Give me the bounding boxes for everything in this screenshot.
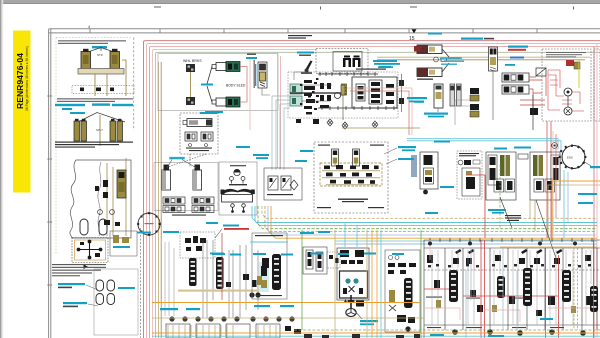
red note label (224, 228, 249, 230)
rc corner labels (317, 145, 384, 209)
metering cylinder pair (450, 84, 461, 106)
steering metering cylinder (434, 84, 443, 108)
port circles top (428, 242, 577, 246)
stick cylinder S2 (110, 49, 120, 73)
box1 title text (58, 40, 126, 44)
box label rows (186, 148, 212, 152)
left ruler (49, 29, 51, 338)
solenoid stack 1 (470, 88, 479, 101)
cartridge center (369, 80, 382, 104)
brake block B2 (186, 97, 195, 105)
small marks row (428, 264, 591, 267)
pills lower 2x2 (96, 280, 115, 305)
dashed column separator lower (140, 228, 142, 338)
khaki corner wire (548, 185, 600, 238)
red wires fan (548, 70, 584, 111)
cylinder pair right (110, 119, 123, 141)
pin left (230, 177, 234, 181)
small fittings (226, 274, 257, 287)
sub box marks (80, 88, 114, 92)
cyan labels right low (578, 193, 597, 195)
svg-text:SPLY: SPLY (96, 128, 103, 132)
cartridge pair box (303, 247, 327, 274)
bottom small cluster mid (285, 326, 301, 334)
dashed box (542, 49, 591, 121)
engine circle (559, 145, 587, 170)
linkage wires (207, 67, 212, 103)
cyan label + red label (508, 46, 528, 48)
fan motor circle (564, 88, 572, 96)
valve block L2 (192, 197, 214, 213)
center coupling (518, 154, 528, 159)
extra cyan/blue bus right (335, 223, 597, 248)
top ruler (49, 29, 600, 33)
tank internals (107, 158, 126, 236)
sub dashed box (72, 86, 134, 94)
left window edge (0, 0, 1, 338)
top ruler ticks (90, 29, 537, 33)
connector dotted box A to B (168, 154, 206, 167)
steer valve v1 (185, 132, 213, 141)
label rows (546, 52, 586, 57)
junction circle (335, 93, 341, 99)
dashed ext (327, 252, 340, 268)
dashed box A (180, 113, 218, 154)
text rows in bank (426, 297, 564, 329)
wire nest to engine (553, 131, 568, 238)
cyan label mid (488, 209, 506, 211)
wire sage (156, 52, 600, 338)
olive component (574, 62, 580, 69)
wire gray runs (455, 100, 470, 125)
rc internals row1 (324, 165, 379, 169)
olive dashed verticals (574, 248, 578, 330)
valve block row1 (502, 73, 529, 82)
wire pink right drop (596, 44, 598, 338)
valve block L1 (163, 197, 185, 213)
spool cluster S1 (304, 80, 319, 114)
spring symbol (342, 84, 347, 95)
cartridge P1 (343, 56, 351, 68)
steer cylinder R1 (417, 45, 449, 57)
tan band (178, 290, 268, 292)
cyan label steering cylinder (424, 113, 448, 115)
fan pump circle (564, 107, 572, 115)
rc leader lines (384, 148, 397, 164)
steer cylinder R2 (417, 63, 449, 77)
wire pink 1 (147, 44, 600, 338)
pump group 1 (486, 152, 516, 200)
cyan label row above valve sections (212, 253, 404, 256)
base plate (78, 69, 124, 75)
wire orange bottom 1 (152, 302, 420, 304)
red component (566, 60, 574, 66)
cyan label pump circle (163, 231, 179, 233)
pump label (145, 223, 154, 224)
top tick marks (430, 238, 592, 242)
svg-text:15: 15 (409, 36, 415, 42)
svg-text:BODY SLED: BODY SLED (226, 84, 246, 88)
rc internals row2 (326, 173, 372, 177)
dashed column separator (133, 38, 135, 131)
page label bar (13, 31, 31, 193)
wire cyan bottom (152, 335, 600, 337)
box outline (264, 168, 302, 200)
body cylinder CY1 (212, 62, 240, 72)
aux fittings right bank (434, 280, 593, 316)
spool valve SP2 (216, 257, 224, 289)
olive bits right bank (436, 300, 576, 313)
cyan highlight block (259, 262, 269, 292)
pilot circles (189, 144, 192, 147)
pump circle (138, 213, 160, 235)
left zone marker triangle (84, 265, 89, 270)
cyan label trans2 (440, 186, 454, 188)
tank bottom marks (104, 220, 120, 226)
svg-text:RENR9476-04: RENR9476-04 (15, 53, 25, 109)
cyan callout lever (297, 52, 314, 54)
label row (229, 184, 247, 185)
wire pink pale (153, 49, 317, 338)
wire cyan 1 (252, 206, 597, 223)
cyan callout left (201, 84, 213, 86)
red wiring right bank (424, 240, 594, 338)
small relief valve (434, 57, 439, 62)
cyan callouts rc (295, 146, 416, 162)
stick A-frame (85, 48, 117, 54)
brake valve assembly (337, 248, 369, 300)
red link wires cooler-fan (529, 76, 551, 238)
wire olive drops box1 (95, 60, 126, 96)
spool bank S4 (562, 270, 571, 302)
svg-text:ENG: ENG (567, 156, 573, 160)
orange corner wire (552, 181, 600, 238)
wire red main (144, 41, 600, 338)
small fittings below manifold (296, 119, 319, 124)
check valve diamond D1 (327, 119, 333, 126)
spool bank S3 (523, 268, 532, 306)
cyan labels row (160, 253, 294, 311)
label under cylinders (417, 79, 433, 80)
lift cylinder L1 (162, 165, 171, 191)
tank small parts (95, 180, 108, 198)
cartridge V2 (258, 62, 267, 88)
transmission valve block (420, 152, 438, 194)
wire pink vertical pair (249, 58, 251, 130)
bolt right (242, 204, 246, 208)
cyan tie rod marks (440, 58, 464, 65)
tank circles (98, 210, 103, 215)
check valve diamond D2 (342, 122, 348, 129)
wire red cylinder (240, 67, 247, 103)
valves inside (268, 176, 298, 190)
cyan callouts (236, 146, 269, 159)
green dashed vertical (499, 165, 501, 229)
wire blue (268, 206, 596, 235)
cyan note labels (58, 283, 85, 285)
olive spring drop (341, 85, 345, 120)
brake block B1 (186, 64, 195, 72)
top center text block (288, 35, 312, 39)
stick cylinder S1 (81, 49, 91, 73)
inner olive box (320, 163, 382, 186)
spool bank S1 (449, 270, 458, 302)
axle cross (78, 242, 101, 259)
spool valve SP1 (189, 258, 197, 286)
lift cylinder L2 (193, 165, 202, 191)
indicator circle (234, 169, 240, 175)
A-frame box2 (78, 113, 125, 123)
spool bank S5 partial (590, 286, 598, 312)
cyan labels pumps (494, 148, 507, 150)
suction unit (117, 170, 126, 198)
solenoid parts (185, 236, 206, 251)
cylinder pair left (74, 119, 87, 141)
steering lever symbol (301, 61, 313, 75)
cyan label mid-right (425, 212, 438, 214)
wire cyan 2 (255, 206, 597, 226)
wire olive bottom 2 (294, 329, 600, 331)
cyan label pills (118, 287, 135, 289)
center supply line (99, 115, 101, 146)
inner thin verticals (432, 250, 591, 325)
blade base (222, 195, 253, 203)
wire pink loop (347, 88, 412, 135)
cyan callout cylinders (169, 157, 185, 160)
black wire fan (567, 96, 569, 107)
diagonal annotation (500, 197, 512, 228)
cartridge left (356, 84, 365, 101)
bank frame (424, 240, 600, 338)
parking brake box (385, 250, 420, 332)
solenoid row (427, 249, 591, 264)
manifold top edge (318, 72, 378, 76)
cyan label left small (414, 101, 424, 103)
cyan label steering top (461, 38, 483, 40)
green port circles (452, 329, 586, 336)
teal valve T1 (290, 84, 302, 94)
wire olive dashed (265, 206, 596, 232)
wire steering (438, 58, 493, 120)
cyan band (55, 103, 133, 114)
hydraulic tank wavy outline (70, 160, 131, 238)
wire red loop (350, 91, 409, 135)
zone marker triangle (412, 29, 417, 33)
cyan vertical center (380, 230, 382, 338)
cartridge P2 (353, 56, 361, 68)
pump group 2 (530, 152, 560, 200)
wire khaki lower (158, 62, 160, 338)
leader lines (86, 285, 98, 306)
dashed box (180, 232, 215, 258)
cyan rows left of cylinders (374, 63, 400, 68)
pump circle ticks (137, 212, 161, 236)
cyan callout (200, 112, 217, 114)
rotated label (255, 64, 256, 86)
manifold dashed outline (288, 72, 398, 118)
terminal circles row 1 (169, 316, 294, 321)
rc olive wires (322, 163, 380, 185)
tank inner wavy line (98, 162, 101, 236)
teal valve T2 (290, 96, 302, 106)
top margin ticks (154, 7, 574, 10)
accumulator outline box (94, 269, 138, 335)
box label (267, 194, 293, 195)
red vertical drop (466, 175, 485, 238)
black text rows near callout (356, 69, 386, 70)
diverter dashed box (457, 151, 482, 199)
side box (110, 231, 137, 256)
cyan label box1 (92, 46, 107, 48)
wire green dashed (258, 206, 596, 229)
note text bands (52, 264, 106, 276)
cyan callout top right (246, 57, 257, 59)
left feeder lines (165, 242, 174, 316)
wire orange (271, 206, 597, 238)
left box (252, 233, 287, 299)
blade box (219, 162, 257, 215)
box2 title text (57, 98, 133, 102)
wire pink pair right of chassis box (278, 54, 281, 169)
valve bodies hatched bottom (168, 325, 233, 338)
pilot supply dashed box (316, 49, 368, 74)
khaki verticals center (335, 230, 367, 338)
valve block row2 (502, 85, 529, 94)
scattered cyan labels (137, 222, 553, 337)
wire orange bottom 2 (152, 332, 600, 334)
yellow wire (578, 60, 580, 88)
svg-text:WHL BRKS: WHL BRKS (183, 59, 202, 63)
blue-gray valve cut left (411, 155, 417, 177)
chassis group box (158, 54, 278, 111)
pin right (241, 177, 245, 181)
tank title rows (55, 142, 133, 148)
valve body main (352, 77, 397, 108)
callout leader lines (167, 160, 197, 169)
orange verticals center (372, 230, 377, 338)
steering wheel symbol (344, 295, 364, 317)
spool bank S2 (497, 276, 505, 298)
second dashed box (cut) (594, 49, 600, 121)
cyan label torque (407, 97, 427, 99)
body cylinder CY2 (212, 97, 240, 107)
cyan label trans (434, 141, 450, 143)
blade wing symbol (223, 189, 252, 193)
wire drop (262, 88, 270, 95)
wire red cooler (520, 77, 545, 110)
wire tan right segment (377, 56, 590, 58)
content dashed border (56, 38, 131, 256)
side squares (399, 80, 404, 86)
body bottom ticks (318, 106, 398, 110)
wire olive right segment (377, 59, 585, 61)
box B outline (154, 163, 218, 211)
box B label (172, 215, 206, 216)
cyan bus to engine (407, 139, 558, 151)
wire olive bottom (342, 127, 420, 129)
pills above (80, 219, 107, 235)
rc label (338, 199, 368, 203)
pilot drain lines (272, 96, 290, 170)
wire khaki bottom (152, 317, 424, 319)
top window bar (0, 0, 600, 3)
vertical text note (254, 60, 255, 88)
extra fine marks (300, 78, 318, 105)
diagonal annotation 2 (536, 200, 556, 258)
cyan label engine (590, 166, 600, 168)
check valve diamond D3 (372, 121, 378, 128)
inner box (333, 52, 362, 72)
rc internals row3 (330, 180, 375, 184)
cyan label steering wheel (360, 320, 378, 322)
olive verticals (530, 200, 535, 231)
red drop wire center (221, 233, 223, 300)
component dark red near marker (414, 46, 421, 52)
wire pink 2 (150, 47, 600, 338)
dark circles pair (249, 292, 254, 297)
steering column valve (489, 47, 498, 72)
leader (353, 309, 362, 319)
cyan callout bottom (205, 111, 223, 113)
cyan callout manifold top (373, 60, 397, 67)
bottom cut components (304, 334, 420, 338)
dashed mid line (424, 269, 600, 271)
circled S (552, 143, 558, 149)
blue-gray verticals (466, 248, 517, 338)
filter diagonal box (536, 68, 546, 76)
wire khaki dashed (262, 206, 596, 218)
green vertical center (302, 230, 421, 338)
main spool bar (290, 92, 345, 94)
svg-text:STK: STK (97, 53, 103, 57)
wire olive lower (160, 62, 162, 338)
pilot cartridge RC2 (353, 149, 360, 166)
cyan line over left box (250, 241, 288, 243)
wire (190, 72, 192, 97)
solenoid stack 2 (470, 104, 479, 117)
bolt left (231, 204, 235, 208)
dashed outline (314, 142, 388, 213)
thin vertical run lines (203, 240, 258, 318)
spool cluster S2 (320, 83, 331, 108)
cartridge right marks (386, 84, 394, 104)
pilot cartridge RC1 (332, 149, 339, 166)
pink region outlines (424, 240, 590, 322)
steer cylinder symbol (187, 119, 212, 127)
cooler small component (530, 108, 538, 115)
axle box (72, 238, 108, 263)
wire red right drop (593, 47, 595, 338)
blade label (230, 165, 246, 166)
svg-text:36 Page (dimensions 48 inches: 36 Page (dimensions 48 inches x 36 inche… (25, 46, 29, 111)
